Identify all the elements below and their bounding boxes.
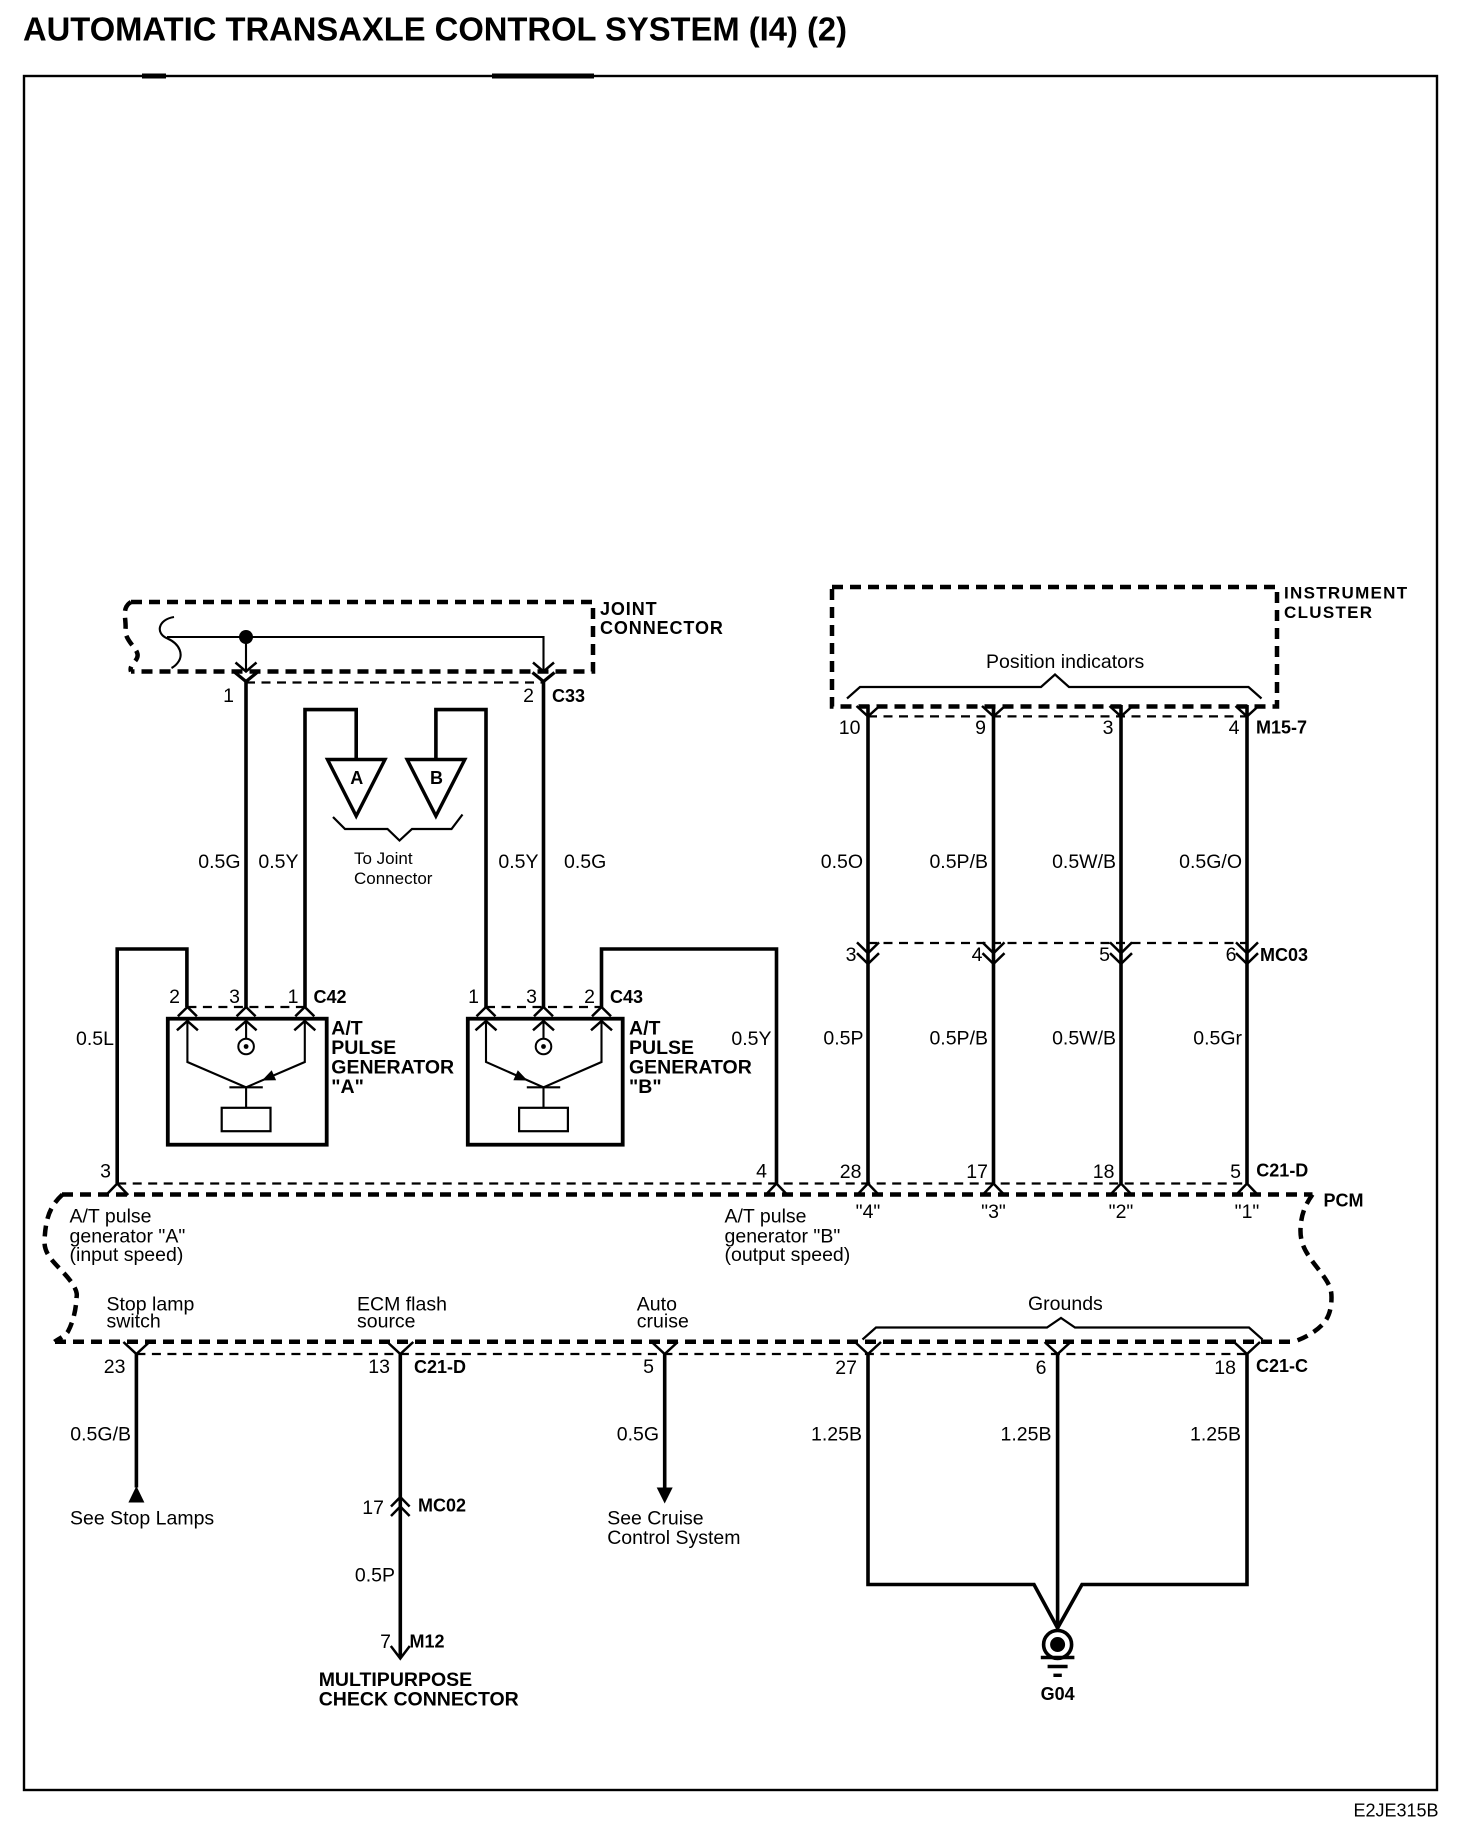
M15-7 pin4 chevron: [1236, 706, 1259, 716]
cruise arrowhead (down): [657, 1488, 673, 1504]
svg-text:4: 4: [972, 944, 983, 966]
svg-text:INSTRUMENT: INSTRUMENT: [1284, 584, 1408, 603]
svg-text:"1": "1": [1235, 1201, 1260, 1223]
svg-text:7: 7: [380, 1631, 391, 1653]
junction node: [239, 630, 253, 644]
PCM pin4 chevron: [766, 1184, 788, 1196]
wire 0.5G/O: cluster pin4 to PCM pin5: [1245, 705, 1249, 1184]
svg-text:1.25B: 1.25B: [1190, 1424, 1241, 1446]
connector M12 chevron (down): [391, 1646, 410, 1659]
PCM pin5b chevron: [652, 1342, 678, 1354]
svg-text:Position indicators: Position indicators: [986, 651, 1144, 673]
PCM pin17 chevron: [983, 1184, 1005, 1196]
svg-text:23: 23: [104, 1356, 126, 1378]
svg-text:2: 2: [169, 986, 180, 1008]
svg-text:1.25B: 1.25B: [811, 1424, 862, 1446]
svg-text:M15-7: M15-7: [1256, 718, 1307, 738]
svg-text:5: 5: [643, 1356, 654, 1378]
svg-text:MC02: MC02: [418, 1496, 466, 1516]
M15-7 pin10 chevron: [857, 706, 880, 716]
svg-text:18: 18: [1214, 1357, 1236, 1379]
svg-text:3: 3: [846, 944, 857, 966]
svg-text:To Joint: To Joint: [354, 849, 413, 868]
pulse gen A crossbar: [229, 1086, 262, 1088]
svg-text:PCM: PCM: [1324, 1191, 1364, 1211]
M15-7 pin3 chevron: [1110, 706, 1133, 716]
wire 0.5Y feed: C43 pin2 up and over, down to PCM pin4: [602, 949, 777, 1184]
svg-text:JOINT: JOINT: [600, 599, 658, 619]
wire 1.25B pin18 to G04: [1058, 1354, 1247, 1628]
svg-text:Control System: Control System: [607, 1527, 740, 1549]
PCM pin5 chevron: [1236, 1184, 1258, 1196]
svg-text:C43: C43: [610, 987, 643, 1007]
svg-text:G04: G04: [1041, 1684, 1075, 1704]
svg-text:AUTOMATIC TRANSAXLE CONTROL SY: AUTOMATIC TRANSAXLE CONTROL SYSTEM (I4) …: [23, 12, 847, 49]
svg-text:"2": "2": [1109, 1201, 1134, 1223]
connector C42 dashed line: [187, 1006, 304, 1008]
svg-text:0.5G/B: 0.5G/B: [70, 1424, 131, 1446]
svg-text:4: 4: [1229, 717, 1240, 739]
svg-text:0.5P/B: 0.5P/B: [929, 851, 988, 873]
pulse gen A pickup: coil V: [187, 1019, 304, 1088]
PCM pin13 chevron: [387, 1342, 413, 1354]
wire 0.5P ECM flash to M12: [398, 1354, 402, 1657]
svg-text:C33: C33: [552, 686, 585, 706]
A/T pulse generator B box: [468, 1019, 623, 1145]
C33 pin2 chevrons: [533, 663, 554, 672]
svg-text:MC03: MC03: [1260, 945, 1308, 965]
svg-text:Grounds: Grounds: [1028, 1293, 1103, 1315]
svg-text:0.5P: 0.5P: [355, 1565, 395, 1587]
svg-text:27: 27: [835, 1357, 857, 1379]
svg-text:1: 1: [468, 986, 479, 1008]
MC03 pin3 chevrons: [857, 942, 879, 953]
svg-text:13: 13: [368, 1356, 390, 1378]
pulse gen A stem: [245, 1087, 247, 1108]
svg-text:(input speed): (input speed): [70, 1244, 184, 1266]
svg-text:9: 9: [975, 717, 986, 739]
pulse gen B stem: [542, 1087, 544, 1108]
pulse gen B arrowhead: [513, 1070, 527, 1080]
connector M15-7 dashed line: [868, 715, 1247, 717]
brace position indicators: [847, 675, 1262, 699]
svg-text:0.5Gr: 0.5Gr: [1193, 1028, 1242, 1050]
svg-text:"B": "B": [629, 1076, 662, 1098]
svg-text:C21-C: C21-C: [1256, 1356, 1308, 1376]
svg-text:6: 6: [1036, 1357, 1047, 1379]
PCM pin27 chevron: [855, 1342, 881, 1354]
svg-text:cruise: cruise: [637, 1311, 689, 1333]
svg-text:E2JE315B: E2JE315B: [1353, 1801, 1438, 1821]
svg-text:0.5G: 0.5G: [564, 851, 606, 873]
C43 pin1 chevrons: [477, 1007, 496, 1016]
ground G04 symbol: [1044, 1631, 1072, 1659]
C42 pin2 chevrons: [178, 1007, 197, 1016]
joint connector wavy left edge: [125, 602, 138, 672]
svg-text:"4": "4": [856, 1201, 881, 1223]
svg-text:A: A: [350, 768, 363, 788]
wire 0.5G/B stop lamp: [135, 1354, 139, 1488]
svg-text:0.5Y: 0.5Y: [731, 1028, 771, 1050]
wire 0.5L feed: PCM pin3 up and over to C42 pin2: [117, 949, 187, 1184]
wire 0.5G from C33 pin2 down to C43 pin3: [542, 682, 546, 1008]
MC03 pin4 chevrons: [983, 942, 1005, 953]
PCM pin23 chevron: [123, 1342, 149, 1354]
stop lamp arrowhead (up): [128, 1486, 144, 1503]
wire 0.5G from C33 pin1 down to C42 pin3: [244, 682, 248, 1008]
MC03 pin5 chevrons: [1110, 942, 1132, 953]
brace under triangles: [333, 815, 463, 841]
svg-text:17: 17: [362, 1497, 384, 1519]
svg-text:A/T pulse: A/T pulse: [70, 1206, 152, 1228]
svg-text:0.5O: 0.5O: [821, 851, 863, 873]
svg-text:CLUSTER: CLUSTER: [1284, 603, 1373, 622]
svg-text:"A": "A": [331, 1076, 364, 1098]
wire stub hook inside joint connector: [160, 617, 181, 668]
svg-text:C21-D: C21-D: [1256, 1160, 1308, 1180]
connector MC03 dashed line: [868, 942, 1247, 944]
svg-text:0.5P: 0.5P: [823, 1028, 863, 1050]
svg-text:M12: M12: [410, 1632, 445, 1652]
svg-text:3: 3: [100, 1161, 111, 1183]
wire: joint connector bus: [167, 637, 544, 672]
C43 pin3 chevrons: [534, 1007, 553, 1016]
PCM boundary top (thick dashed): [62, 1192, 1313, 1197]
svg-text:source: source: [357, 1311, 416, 1333]
wire 0.5W/B: cluster pin3 to PCM pin18: [1119, 705, 1123, 1184]
wire 0.5O: cluster pin10 to PCM pin28: [866, 705, 870, 1184]
frame top border heavy segments: [142, 74, 166, 79]
brace grounds: [863, 1318, 1263, 1340]
C42 pin1 chevrons: [295, 1007, 314, 1016]
MC03 pin6 chevrons: [1236, 942, 1258, 953]
ground bars: [1041, 1656, 1075, 1659]
svg-text:1: 1: [223, 685, 234, 707]
svg-text:2: 2: [584, 986, 595, 1008]
connector C21-D/C21-C dashed line (lower): [136, 1353, 1247, 1355]
svg-text:10: 10: [839, 717, 861, 739]
svg-text:5: 5: [1230, 1161, 1241, 1183]
svg-text:4: 4: [756, 1161, 767, 1183]
connector C33 dashed line: [246, 681, 544, 683]
svg-text:0.5L: 0.5L: [76, 1028, 114, 1050]
pulse gen B pickup: coil V: [486, 1019, 602, 1088]
svg-text:0.5P/B: 0.5P/B: [929, 1028, 988, 1050]
C43 pin2 chevrons: [592, 1007, 611, 1016]
pulse gen B crossbar: [527, 1086, 560, 1088]
wire 0.5Y triangle B loop down to C43 pin1: [436, 710, 486, 1007]
svg-text:C42: C42: [314, 987, 347, 1007]
connector MC02 chevrons (up): [391, 1497, 410, 1507]
svg-text:CONNECTOR: CONNECTOR: [600, 618, 724, 638]
wire 1.25B pin27 to G04: [868, 1354, 1058, 1628]
svg-text:5: 5: [1099, 944, 1110, 966]
pulse gen A magnet: [222, 1108, 271, 1131]
PCM pin18 chevron: [1110, 1184, 1132, 1196]
PCM boundary bottom (thick dashed): [55, 1340, 1294, 1345]
wire: drop to pin 1: [245, 637, 247, 672]
wire 0.5G auto cruise: [663, 1354, 667, 1489]
svg-text:switch: switch: [107, 1311, 161, 1333]
A/T pulse generator A box: [168, 1019, 327, 1145]
svg-text:3: 3: [526, 986, 537, 1008]
PCM pin6 chevron: [1045, 1342, 1071, 1354]
svg-text:0.5G: 0.5G: [617, 1424, 659, 1446]
svg-text:2: 2: [523, 685, 534, 707]
svg-text:0.5Y: 0.5Y: [258, 851, 298, 873]
svg-text:0.5Y: 0.5Y: [498, 851, 538, 873]
svg-text:C21-D: C21-D: [414, 1357, 466, 1377]
connector C43 dashed line: [486, 1006, 602, 1008]
svg-text:1.25B: 1.25B: [1001, 1424, 1052, 1446]
M15-7 pin9 chevron: [982, 706, 1005, 716]
PCM pin3 chevron: [106, 1184, 128, 1196]
pulse gen A pickup: pin3 lead and sensor circle: [245, 1019, 247, 1039]
svg-text:3: 3: [229, 986, 240, 1008]
PCM boundary left wavy edge: [44, 1195, 76, 1342]
pulse gen B magnet: [519, 1108, 568, 1131]
svg-text:0.5W/B: 0.5W/B: [1052, 851, 1116, 873]
joint connector box (dashed): [131, 602, 593, 672]
pulse gen A arrowhead: [262, 1070, 276, 1080]
PCM pin18b chevron: [1234, 1342, 1260, 1354]
svg-text:B: B: [430, 768, 443, 788]
triangle B (to joint connector): [407, 760, 465, 817]
C33 pin1 chevrons: [236, 663, 257, 672]
wire 0.5P/B: cluster pin9 to PCM pin17: [992, 705, 996, 1184]
svg-text:"3": "3": [981, 1201, 1006, 1223]
instrument cluster box (dashed): [832, 587, 1277, 707]
svg-text:18: 18: [1093, 1161, 1115, 1183]
wire 1.25B pin6 to G04: [1056, 1354, 1060, 1630]
pulse gen B pickup: pin3 lead and sensor circle: [542, 1019, 544, 1039]
triangle A (to joint connector): [328, 760, 386, 817]
svg-text:Connector: Connector: [354, 869, 433, 888]
svg-text:0.5G/O: 0.5G/O: [1179, 851, 1242, 873]
PCM boundary right S-curve: [1294, 1195, 1332, 1342]
svg-text:See Stop Lamps: See Stop Lamps: [70, 1508, 214, 1530]
svg-text:0.5W/B: 0.5W/B: [1052, 1028, 1116, 1050]
svg-text:28: 28: [840, 1161, 862, 1183]
PCM pin28 chevron: [857, 1184, 879, 1196]
C42 pin3 chevrons: [237, 1007, 256, 1016]
svg-text:A/T pulse: A/T pulse: [725, 1206, 807, 1228]
svg-text:6: 6: [1226, 944, 1237, 966]
svg-text:0.5G: 0.5G: [198, 851, 240, 873]
svg-text:1: 1: [288, 986, 299, 1008]
wire 0.5Y triangle A loop down to C42 pin1: [305, 710, 356, 1007]
connector C21-D dashed line (upper): [117, 1182, 1247, 1184]
svg-text:CHECK CONNECTOR: CHECK CONNECTOR: [319, 1688, 519, 1710]
svg-text:3: 3: [1103, 717, 1114, 739]
svg-text:17: 17: [966, 1161, 988, 1183]
svg-text:(output speed): (output speed): [725, 1244, 851, 1266]
